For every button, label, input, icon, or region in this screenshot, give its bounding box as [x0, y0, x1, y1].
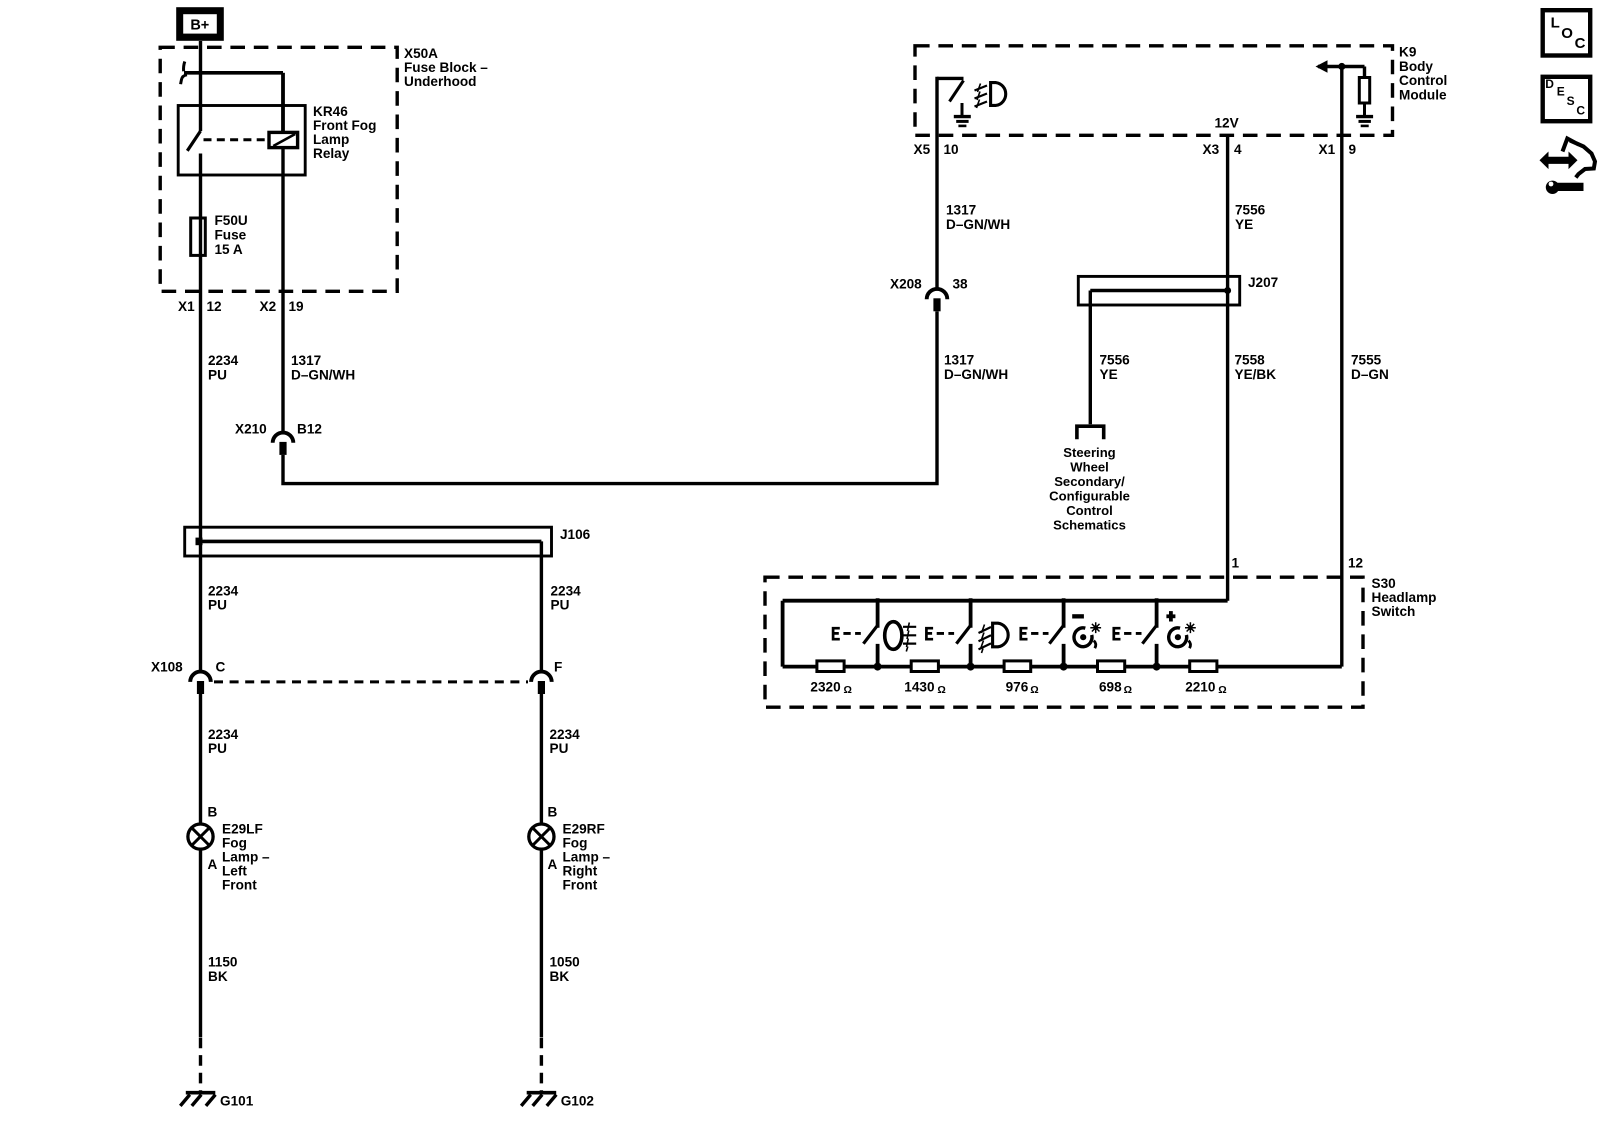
svg-text:1150: 1150 — [208, 955, 238, 970]
svg-text:X108: X108 — [151, 660, 183, 675]
svg-text:Underhood: Underhood — [404, 74, 477, 89]
svg-text:S30: S30 — [1372, 576, 1396, 591]
svg-text:C: C — [216, 660, 226, 675]
svg-text:E29RF: E29RF — [563, 822, 605, 837]
svg-text:YE/BK: YE/BK — [1235, 367, 1277, 382]
svg-text:Configurable: Configurable — [1049, 489, 1130, 504]
svg-text:X210: X210 — [235, 422, 267, 437]
svg-text:D–GN/WH: D–GN/WH — [291, 368, 355, 383]
svg-text:1430: 1430 — [904, 680, 934, 695]
svg-text:19: 19 — [289, 299, 305, 314]
svg-text:D: D — [1545, 77, 1554, 91]
svg-text:A: A — [548, 857, 558, 872]
svg-text:Switch: Switch — [1372, 604, 1416, 619]
svg-text:15 A: 15 A — [215, 242, 243, 257]
svg-text:Fog: Fog — [563, 836, 588, 851]
svg-text:PU: PU — [551, 598, 570, 613]
svg-text:G101: G101 — [220, 1094, 254, 1109]
svg-text:E: E — [1557, 84, 1565, 98]
svg-text:Wheel: Wheel — [1070, 460, 1109, 475]
svg-text:1317: 1317 — [291, 353, 321, 368]
svg-text:12: 12 — [207, 299, 223, 314]
svg-text:YE: YE — [1235, 217, 1253, 232]
svg-text:Ω: Ω — [937, 684, 945, 696]
svg-text:1050: 1050 — [550, 955, 580, 970]
svg-text:Lamp –: Lamp – — [563, 850, 611, 865]
svg-text:L: L — [1551, 15, 1560, 32]
svg-text:Left: Left — [222, 864, 247, 879]
svg-text:B12: B12 — [297, 422, 322, 437]
svg-text:Front: Front — [563, 878, 598, 893]
svg-text:B+: B+ — [190, 18, 209, 34]
svg-text:Body: Body — [1399, 59, 1433, 74]
svg-text:7558: 7558 — [1235, 353, 1266, 368]
svg-text:PU: PU — [208, 741, 227, 756]
svg-text:G102: G102 — [561, 1094, 595, 1109]
svg-text:2320: 2320 — [810, 680, 840, 695]
svg-text:PU: PU — [208, 368, 227, 383]
svg-text:2234: 2234 — [550, 727, 581, 742]
svg-text:12V: 12V — [1215, 116, 1239, 131]
svg-text:Schematics: Schematics — [1053, 518, 1126, 533]
svg-text:7556: 7556 — [1235, 203, 1266, 218]
svg-text:2234: 2234 — [208, 353, 239, 368]
svg-text:9: 9 — [1349, 142, 1357, 157]
svg-text:Ω: Ω — [1124, 684, 1132, 696]
svg-text:Front Fog: Front Fog — [313, 118, 376, 133]
svg-text:X3: X3 — [1203, 142, 1220, 157]
svg-text:Fuse: Fuse — [215, 228, 247, 243]
svg-text:2234: 2234 — [551, 584, 582, 599]
svg-text:2210: 2210 — [1185, 680, 1215, 695]
svg-text:J106: J106 — [560, 527, 591, 542]
svg-text:X50A: X50A — [404, 46, 438, 61]
svg-text:2234: 2234 — [208, 584, 239, 599]
svg-text:BK: BK — [208, 969, 228, 984]
svg-text:F: F — [554, 660, 562, 675]
svg-text:Fog: Fog — [222, 836, 247, 851]
svg-text:Control: Control — [1399, 73, 1447, 88]
svg-text:976: 976 — [1006, 680, 1029, 695]
svg-text:12: 12 — [1348, 555, 1364, 570]
svg-text:Lamp: Lamp — [313, 132, 349, 147]
svg-text:S: S — [1567, 94, 1575, 108]
svg-text:D–GN/WH: D–GN/WH — [944, 367, 1008, 382]
svg-text:C: C — [1575, 35, 1586, 52]
svg-text:X2: X2 — [260, 299, 277, 314]
svg-text:Ω: Ω — [1030, 684, 1038, 696]
svg-text:KR46: KR46 — [313, 104, 348, 119]
svg-text:D–GN/WH: D–GN/WH — [946, 217, 1010, 232]
svg-text:X1: X1 — [178, 299, 195, 314]
svg-text:Lamp –: Lamp – — [222, 850, 270, 865]
svg-text:X1: X1 — [1319, 142, 1336, 157]
svg-text:Relay: Relay — [313, 146, 350, 161]
svg-text:7555: 7555 — [1351, 353, 1382, 368]
svg-text:O: O — [1561, 25, 1573, 42]
svg-text:PU: PU — [550, 741, 569, 756]
svg-text:698: 698 — [1099, 680, 1122, 695]
svg-text:Control: Control — [1066, 503, 1113, 518]
svg-text:1317: 1317 — [944, 353, 974, 368]
svg-text:1: 1 — [1232, 555, 1240, 570]
svg-text:X5: X5 — [914, 142, 931, 157]
svg-text:D–GN: D–GN — [1351, 367, 1389, 382]
svg-text:Fuse Block –: Fuse Block – — [404, 60, 488, 75]
svg-text:J207: J207 — [1248, 275, 1278, 290]
svg-text:K9: K9 — [1399, 45, 1417, 60]
svg-text:E29LF: E29LF — [222, 822, 263, 837]
svg-text:X208: X208 — [890, 277, 922, 292]
svg-text:PU: PU — [208, 598, 227, 613]
svg-text:Front: Front — [222, 878, 257, 893]
svg-text:1317: 1317 — [946, 203, 976, 218]
svg-text:Headlamp: Headlamp — [1372, 590, 1437, 605]
svg-text:C: C — [1576, 104, 1585, 118]
svg-text:A: A — [208, 857, 218, 872]
svg-text:10: 10 — [944, 142, 959, 157]
svg-text:B: B — [548, 805, 558, 820]
svg-text:38: 38 — [953, 277, 969, 292]
svg-text:2234: 2234 — [208, 727, 239, 742]
svg-text:Right: Right — [563, 864, 598, 879]
svg-text:B: B — [208, 805, 218, 820]
svg-text:7556: 7556 — [1100, 353, 1131, 368]
svg-text:Module: Module — [1399, 88, 1447, 103]
svg-text:BK: BK — [550, 969, 570, 984]
svg-text:Ω: Ω — [1218, 684, 1226, 696]
svg-text:Secondary/: Secondary/ — [1054, 474, 1125, 489]
svg-text:4: 4 — [1234, 142, 1242, 157]
svg-text:Ω: Ω — [844, 684, 852, 696]
svg-text:Steering: Steering — [1063, 445, 1115, 460]
svg-text:YE: YE — [1100, 367, 1118, 382]
svg-text:F50U: F50U — [215, 213, 248, 228]
